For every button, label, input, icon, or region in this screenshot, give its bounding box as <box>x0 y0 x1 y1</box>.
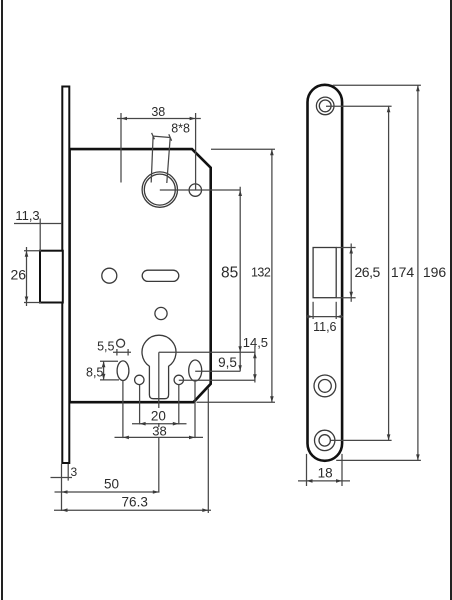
dimension 8*8 line with ticks <box>152 133 172 141</box>
svg-text:174: 174 <box>391 264 415 280</box>
keyhole europrofile <box>142 335 176 398</box>
svg-text:8,5: 8,5 <box>86 366 103 380</box>
latch bolt <box>40 251 63 303</box>
dimension 26 <box>11 247 41 306</box>
svg-text:50: 50 <box>104 477 119 492</box>
svg-text:132: 132 <box>251 266 271 280</box>
plate top extension <box>333 84 421 86</box>
svg-text:18: 18 <box>318 465 333 480</box>
oval hole left <box>117 361 129 381</box>
small hole line to 14,5 <box>179 379 255 381</box>
case bottom extension right <box>197 401 276 403</box>
follower hub circle outer <box>142 172 177 207</box>
faceplate front view <box>62 87 69 464</box>
svg-text:85: 85 <box>221 265 238 282</box>
case top extension right <box>211 148 275 150</box>
middle screw hole inner <box>319 380 332 393</box>
svg-text:14,5: 14,5 <box>243 335 268 350</box>
dimension 5,5 <box>97 339 131 355</box>
keyhole vertical extension middle <box>158 423 160 427</box>
svg-text:11,3: 11,3 <box>15 208 39 223</box>
svg-text:26,5: 26,5 <box>355 264 381 280</box>
svg-text:11,6: 11,6 <box>313 320 336 334</box>
dimension 85 and 9,5 shared line <box>218 187 242 372</box>
spindle square extension right <box>167 138 170 184</box>
dimension 20 <box>132 384 187 425</box>
keyhole vertical extension lower <box>158 438 160 492</box>
mid-left hole <box>102 268 117 283</box>
top hole centerline extension <box>326 105 392 107</box>
dimension 76.3 <box>54 495 211 512</box>
small hole right of hub <box>189 184 201 196</box>
oval hole right <box>189 360 202 381</box>
top screw hole outer <box>316 97 334 115</box>
dimension 11,3 <box>14 208 62 251</box>
hub centerline <box>160 189 240 191</box>
svg-text:9,5: 9,5 <box>218 355 237 370</box>
svg-text:20: 20 <box>151 409 166 424</box>
latch window <box>313 248 336 298</box>
case right extension down <box>207 389 209 514</box>
oblong slot <box>142 270 179 281</box>
lock case outline <box>70 149 211 402</box>
dimension 174 <box>387 106 415 441</box>
dimension 50 <box>55 477 160 494</box>
svg-text:196: 196 <box>423 264 447 280</box>
oval centerline to 9,5 <box>195 370 240 372</box>
follower hub circle inner <box>144 174 175 205</box>
svg-text:38: 38 <box>152 424 166 439</box>
svg-text:76.3: 76.3 <box>122 495 148 510</box>
page left edge line <box>1 0 3 600</box>
faceplate left extension down <box>61 464 63 511</box>
plate bottom extension <box>336 459 421 461</box>
tiny hole above-left of keyhole <box>117 339 125 347</box>
bottom screw hole outer <box>315 430 335 450</box>
dimension 196 <box>416 85 446 460</box>
bottom hole centerline extension <box>331 439 392 441</box>
small hole left of keyhole <box>135 375 144 384</box>
page right edge line <box>450 0 452 600</box>
dimension 18 <box>298 454 350 486</box>
keyhole centerline <box>159 351 255 353</box>
dimension 132 <box>251 149 274 402</box>
side view faceplate <box>308 85 343 461</box>
svg-text:3: 3 <box>70 465 77 479</box>
bottom screw hole inner <box>319 435 330 446</box>
top screw hole inner <box>319 100 331 112</box>
middle screw hole outer <box>314 375 336 397</box>
dimension 26,5 <box>336 244 380 302</box>
dimension 11,6 <box>306 302 343 334</box>
svg-text:5,5: 5,5 <box>97 339 114 353</box>
spindle square extension left <box>151 136 153 182</box>
dimension 38 top <box>117 105 201 190</box>
small hole right of keyhole <box>174 375 183 384</box>
center hole <box>155 307 167 319</box>
dimension 38 bottom <box>115 381 204 440</box>
dimension 14,5 <box>243 335 268 383</box>
dimension 3 faceplate thickness <box>51 464 78 481</box>
svg-text:8*8: 8*8 <box>171 122 190 136</box>
svg-text:38: 38 <box>151 105 165 119</box>
keyhole vertical extension upper <box>158 352 160 408</box>
dimension 8,5 <box>86 361 119 380</box>
svg-text:26: 26 <box>11 267 27 283</box>
